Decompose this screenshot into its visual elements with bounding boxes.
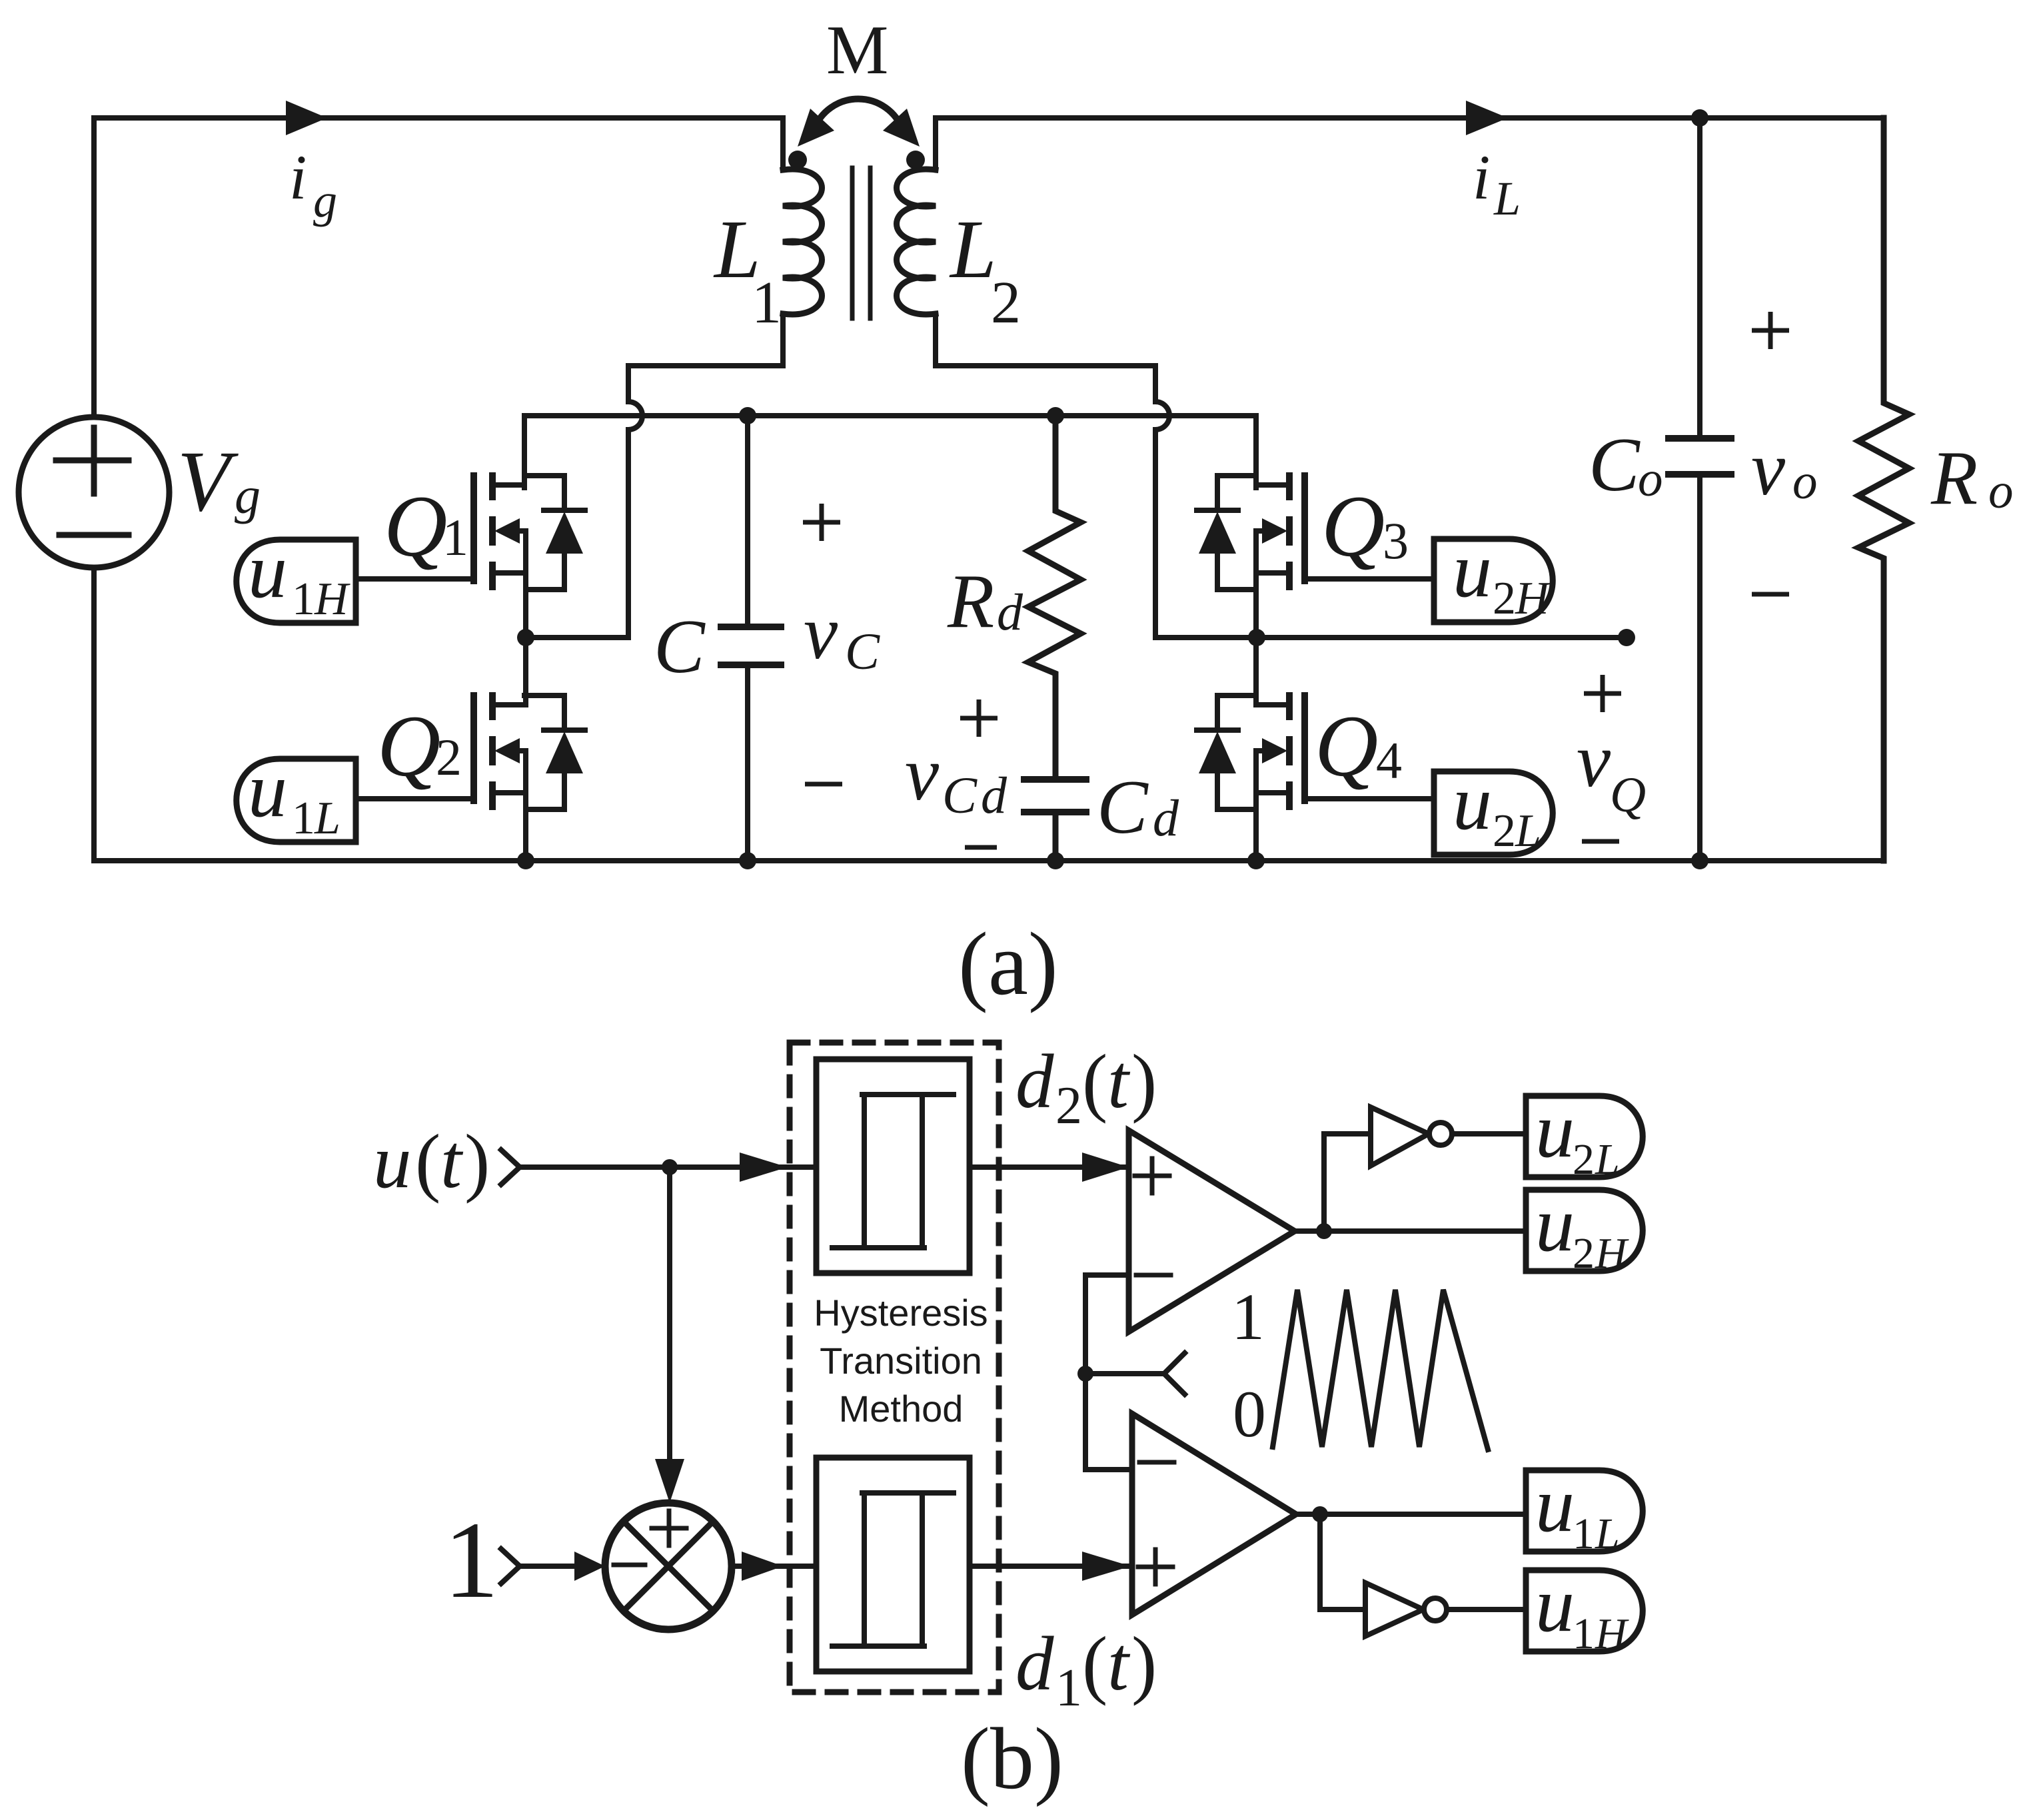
svg-text:d: d bbox=[1153, 789, 1179, 847]
svg-text:3: 3 bbox=[1383, 512, 1409, 570]
svg-text:1: 1 bbox=[1573, 1609, 1595, 1658]
svg-text:Q: Q bbox=[384, 477, 447, 575]
svg-text:0: 0 bbox=[1233, 1377, 1266, 1451]
svg-text:2: 2 bbox=[1573, 1135, 1595, 1184]
svg-text:1: 1 bbox=[442, 508, 468, 566]
svg-text:g: g bbox=[313, 174, 337, 227]
svg-text:L: L bbox=[949, 204, 997, 296]
svg-text:i: i bbox=[289, 142, 307, 213]
svg-text:u: u bbox=[373, 1119, 412, 1204]
svg-text:H: H bbox=[314, 574, 350, 625]
svg-text:1: 1 bbox=[1573, 1510, 1595, 1558]
svg-text:H: H bbox=[1595, 1229, 1629, 1278]
svg-text:d: d bbox=[997, 583, 1023, 641]
svg-text:(a): (a) bbox=[958, 915, 1058, 1014]
svg-text:2: 2 bbox=[1573, 1229, 1595, 1278]
svg-text:L: L bbox=[1595, 1510, 1620, 1558]
svg-text:o: o bbox=[1638, 452, 1663, 507]
svg-text:H: H bbox=[1595, 1609, 1629, 1658]
svg-text:Transition: Transition bbox=[820, 1340, 982, 1382]
svg-text:R: R bbox=[1930, 436, 1978, 520]
svg-text:d: d bbox=[1015, 1039, 1054, 1124]
svg-text:2: 2 bbox=[1493, 805, 1516, 857]
svg-text:t: t bbox=[1107, 1039, 1131, 1124]
svg-text:V: V bbox=[177, 434, 239, 530]
svg-text:u: u bbox=[248, 746, 287, 833]
svg-text:d: d bbox=[1015, 1621, 1054, 1706]
svg-text:L: L bbox=[1493, 172, 1521, 225]
svg-text:g: g bbox=[235, 466, 261, 524]
svg-text:R: R bbox=[947, 559, 994, 644]
svg-text:(: ( bbox=[1082, 1621, 1107, 1706]
svg-text:u: u bbox=[1535, 1180, 1575, 1268]
svg-text:L: L bbox=[1595, 1135, 1620, 1184]
svg-text:): ) bbox=[464, 1119, 490, 1204]
svg-text:L: L bbox=[1515, 805, 1541, 857]
svg-text:C: C bbox=[845, 622, 880, 680]
svg-text:Q: Q bbox=[1321, 477, 1385, 575]
svg-text:u: u bbox=[248, 527, 287, 614]
svg-text:Q: Q bbox=[1315, 697, 1378, 795]
svg-text:2: 2 bbox=[436, 728, 462, 786]
svg-text:v: v bbox=[1751, 426, 1786, 511]
svg-text:d: d bbox=[981, 766, 1008, 824]
svg-text:H: H bbox=[1515, 573, 1551, 624]
svg-text:): ) bbox=[1131, 1621, 1157, 1706]
svg-text:1: 1 bbox=[444, 1499, 499, 1621]
svg-text:v: v bbox=[804, 590, 838, 675]
svg-text:v: v bbox=[1577, 718, 1611, 803]
svg-text:C: C bbox=[1589, 422, 1641, 507]
svg-text:(b): (b) bbox=[961, 1709, 1063, 1807]
svg-text:1: 1 bbox=[1231, 1280, 1265, 1354]
svg-text:1: 1 bbox=[752, 270, 782, 336]
svg-text:o: o bbox=[1792, 454, 1818, 510]
svg-text:v: v bbox=[905, 731, 940, 816]
svg-text:1: 1 bbox=[292, 793, 315, 844]
svg-text:u: u bbox=[1453, 759, 1492, 846]
svg-text:u: u bbox=[1535, 1087, 1575, 1174]
svg-text:1: 1 bbox=[1055, 1659, 1082, 1717]
svg-text:u: u bbox=[1453, 526, 1492, 614]
svg-text:L: L bbox=[314, 793, 340, 844]
svg-text:Method: Method bbox=[839, 1388, 964, 1430]
svg-text:i: i bbox=[1473, 142, 1490, 213]
svg-text:Q: Q bbox=[377, 697, 440, 795]
svg-text:(: ( bbox=[415, 1119, 440, 1204]
svg-text:t: t bbox=[1107, 1621, 1131, 1706]
svg-text:C: C bbox=[654, 604, 706, 689]
svg-text:u: u bbox=[1535, 1461, 1575, 1548]
svg-text:M: M bbox=[826, 11, 888, 89]
svg-text:1: 1 bbox=[292, 574, 315, 625]
svg-text:C: C bbox=[1097, 765, 1149, 849]
svg-text:): ) bbox=[1131, 1039, 1157, 1124]
svg-text:2: 2 bbox=[991, 270, 1021, 336]
svg-text:2: 2 bbox=[1493, 573, 1516, 624]
svg-text:u: u bbox=[1535, 1561, 1575, 1648]
svg-text:4: 4 bbox=[1376, 731, 1402, 789]
svg-text:Hysteresis: Hysteresis bbox=[814, 1292, 988, 1334]
svg-text:2: 2 bbox=[1055, 1077, 1082, 1135]
svg-text:(: ( bbox=[1082, 1039, 1107, 1124]
svg-text:o: o bbox=[1988, 464, 2014, 519]
svg-text:C: C bbox=[942, 766, 978, 824]
svg-text:Q: Q bbox=[1610, 767, 1646, 823]
svg-text:t: t bbox=[440, 1119, 464, 1204]
